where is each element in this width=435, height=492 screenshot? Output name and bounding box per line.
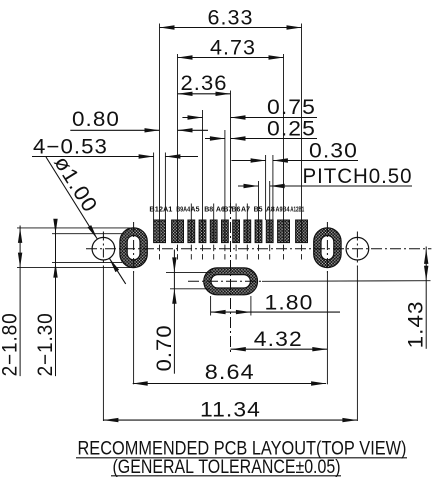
svg-text:(GENERAL TOLERANCE±0.05): (GENERAL TOLERANCE±0.05) <box>113 457 341 478</box>
pad A8 (narrow) <box>266 220 273 243</box>
vertical center axis X0 <box>230 91 232 353</box>
pad B7 (narrow) <box>222 220 229 243</box>
svg-text:ø1.00: ø1.00 <box>49 152 101 217</box>
dimension 0.80 (pad1 center to pad2 center, arrows outside) <box>70 108 208 133</box>
svg-text:A12B1: A12B1 <box>290 207 304 214</box>
svg-text:A9B4: A9B4 <box>276 207 290 214</box>
svg-text:8.64: 8.64 <box>205 361 255 384</box>
svg-text:B12A1: B12A1 <box>149 207 172 214</box>
pad A7 (narrow) <box>244 220 251 243</box>
svg-text:0.75: 0.75 <box>267 96 316 119</box>
leader diameter 1.00 through left hole <box>46 157 126 284</box>
centerline pad A7 <box>246 204 248 260</box>
dimension 4.32 (center axis to right slot center) <box>231 328 328 351</box>
left hole vertical centerline <box>102 232 104 422</box>
dimension 0.30 (narrow pad width, arrows outside) <box>232 140 359 163</box>
title: (GENERAL TOLERANCE +/-0.05) <box>111 457 341 478</box>
pad B6 (narrow) <box>233 220 240 243</box>
svg-text:A5: A5 <box>191 207 200 214</box>
svg-text:4.32: 4.32 <box>254 328 303 351</box>
dimension 11.34 (hole center to hole center) <box>103 398 357 422</box>
pad A6 (narrow) <box>210 220 217 243</box>
svg-text:2.36: 2.36 <box>181 72 228 95</box>
centerline pad A5 <box>190 204 192 260</box>
svg-text:1.43: 1.43 <box>405 300 428 348</box>
label phi 1.00 (rotated) <box>49 152 101 217</box>
pad A9B4 (wide) <box>278 220 290 243</box>
centerline pad A12B1 <box>301 24 303 260</box>
extension lines pad10 edges (0.30) <box>266 155 273 220</box>
extension lines 1.80 <box>211 296 251 316</box>
svg-text:0.25: 0.25 <box>267 118 316 141</box>
dimension 8.64 (slot center to slot center) <box>133 361 326 386</box>
svg-text:PITCH0.50: PITCH0.50 <box>303 165 413 188</box>
svg-text:6.33: 6.33 <box>208 7 254 30</box>
pad B12A1 (pin 1, wide) <box>154 220 166 243</box>
dimension 6.33 (pad1 center to pad12 center) <box>160 7 302 30</box>
extension lines 0.70 <box>166 272 212 288</box>
dimension 2-1.30 (hole pad dia, left) <box>34 219 58 377</box>
centerline pad B9A4 <box>177 54 179 260</box>
centerline pad B6 <box>235 204 237 260</box>
pad A5 (narrow) <box>188 220 195 243</box>
right mounting slot (hatched ring) <box>314 228 341 268</box>
dimension 0.70 (vertical, arrows outside) <box>153 250 177 374</box>
left slot vertical centerline <box>133 222 135 384</box>
svg-text:0.70: 0.70 <box>153 324 176 371</box>
extension lines pad1 edges (4-0.53) <box>154 153 166 221</box>
svg-text:1.80: 1.80 <box>265 292 314 315</box>
svg-text:11.34: 11.34 <box>200 398 261 421</box>
pad A12B1 (pin 12, wide) <box>296 220 308 243</box>
centerline pad B12A1 <box>159 24 161 260</box>
svg-text:A8: A8 <box>266 207 275 214</box>
right locating hole (circle) <box>346 237 369 260</box>
svg-text:B8: B8 <box>204 207 213 214</box>
dimension 0.75 (pad4 center to center axis, arrows outside) <box>182 96 317 120</box>
centerline pad A8 <box>269 181 271 260</box>
pad B9A4 (wide) <box>172 220 184 243</box>
svg-text:A7: A7 <box>241 207 250 214</box>
dimension 2-1.80 (slot pad height, left) <box>0 226 22 377</box>
title: RECOMMENDED PCB LAYOUT(TOP VIEW) <box>76 439 407 460</box>
svg-text:2−1.30: 2−1.30 <box>34 312 57 376</box>
dimension 4-0.53 (wide pad width, arrows outside) <box>32 136 198 159</box>
left mounting slot (hatched ring) <box>120 228 147 268</box>
extension lines 2-1.80 (slot top/bottom tangents) <box>17 228 135 268</box>
dimension 1.43 (centerline to center slot axis, right) <box>405 247 429 349</box>
extension lines 2-1.30 (hole pad tangents) <box>52 234 122 263</box>
svg-text:0.30: 0.30 <box>309 140 358 163</box>
svg-text:B6: B6 <box>231 207 240 214</box>
centerline pad B7 <box>224 130 226 260</box>
centerline pad B5 <box>258 181 260 260</box>
left locating hole (circle) <box>92 237 115 260</box>
centerline pad B8 <box>202 110 204 260</box>
svg-text:2−1.80: 2−1.80 <box>0 312 22 376</box>
svg-text:0.80: 0.80 <box>72 108 120 131</box>
pad B5 (narrow) <box>255 220 262 243</box>
centerline pad A9B4 <box>283 54 285 260</box>
horizontal main centerline <box>86 248 431 250</box>
centerline pad A6 <box>213 204 215 260</box>
dimension 4.73 (pad2 center to pad11 center) <box>178 37 284 60</box>
pad labels row <box>149 207 304 214</box>
dimension 2.36 (pad2 center to center axis) <box>178 72 231 96</box>
svg-text:B5: B5 <box>254 207 263 214</box>
svg-text:B9A4: B9A4 <box>176 207 190 214</box>
svg-text:4.73: 4.73 <box>210 37 256 60</box>
dimension 0.25 (pad6 center to center axis, arrows outside) <box>205 118 317 141</box>
dimension PITCH0.50 (pad9 to pad10 centers, arrows outside) <box>238 165 413 188</box>
right slot vertical centerline <box>326 222 328 384</box>
center slot horizontal centerline <box>188 280 431 283</box>
center slot (hatched ring) <box>204 268 258 295</box>
right hole vertical centerline <box>356 232 358 422</box>
pad B8 (narrow) <box>199 220 206 243</box>
dimension 1.80 (center slot hole width) <box>211 292 340 315</box>
